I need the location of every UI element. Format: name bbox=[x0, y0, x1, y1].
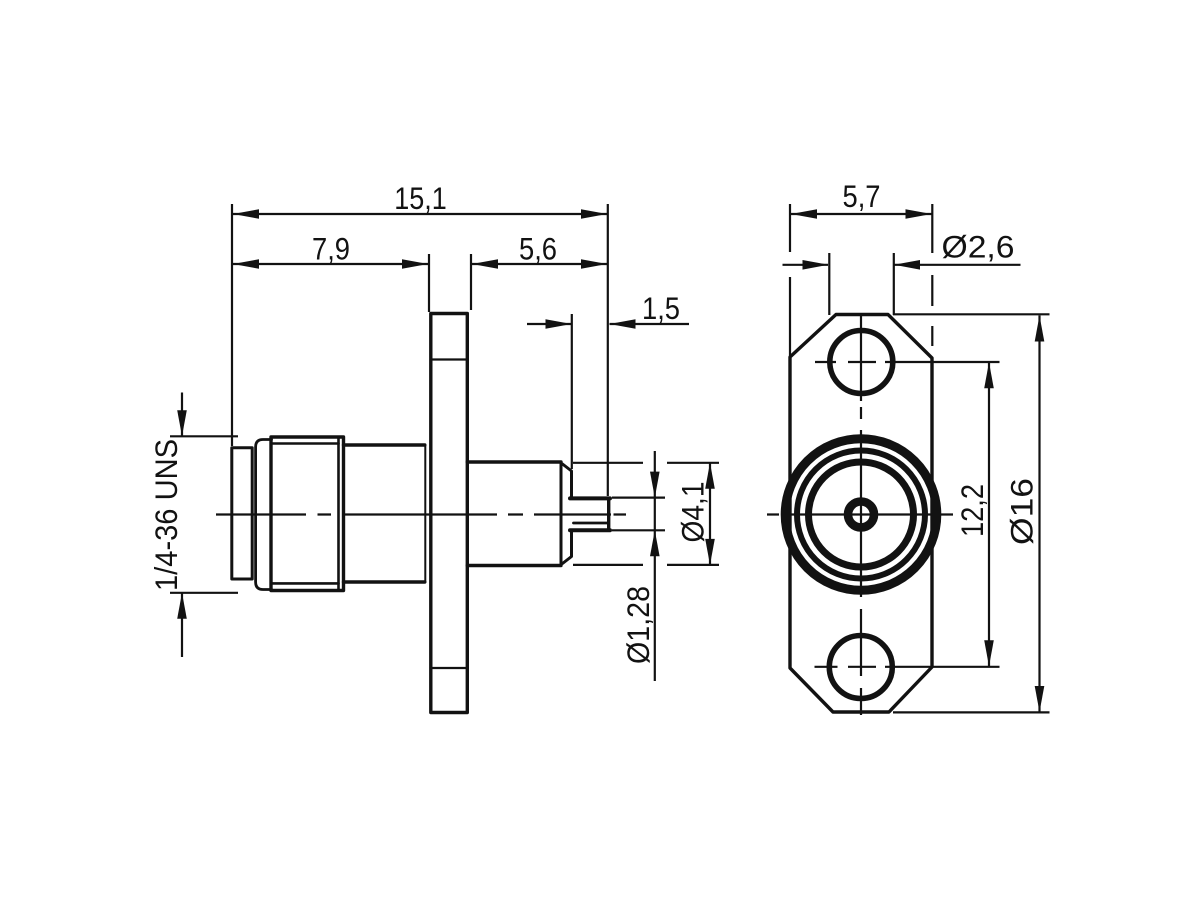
svg-text:15,1: 15,1 bbox=[394, 180, 447, 216]
svg-text:Ø16: Ø16 bbox=[1004, 478, 1040, 545]
svg-text:5,7: 5,7 bbox=[843, 178, 881, 214]
svg-text:7,9: 7,9 bbox=[312, 231, 350, 267]
svg-text:Ø1,28: Ø1,28 bbox=[620, 586, 656, 664]
svg-text:1/4-36 UNS: 1/4-36 UNS bbox=[148, 439, 184, 591]
svg-text:12,2: 12,2 bbox=[954, 484, 990, 537]
svg-text:Ø4,1: Ø4,1 bbox=[675, 482, 711, 543]
svg-text:5,6: 5,6 bbox=[519, 231, 557, 267]
svg-text:1,5: 1,5 bbox=[642, 290, 680, 326]
svg-text:Ø2,6: Ø2,6 bbox=[942, 229, 1015, 265]
